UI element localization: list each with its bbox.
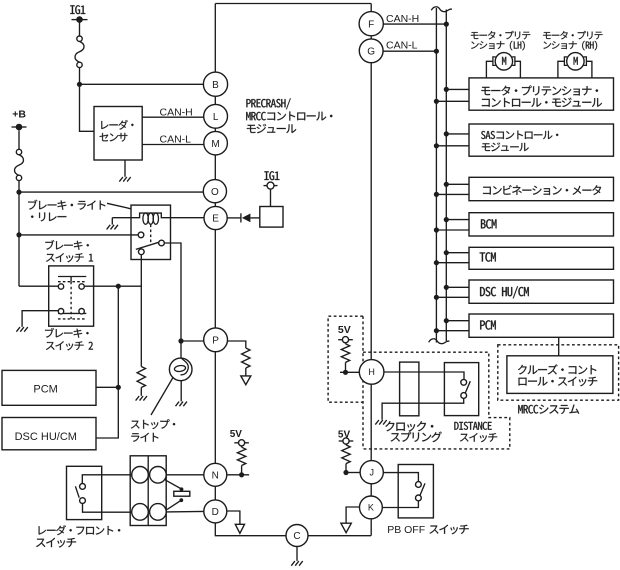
relay contact NO xyxy=(159,240,165,246)
radar sensor box xyxy=(94,107,142,161)
wire block to N xyxy=(166,474,204,476)
fuse F2 top circle xyxy=(16,149,21,154)
label clock spring line2 xyxy=(391,432,442,442)
wire meter CAN-L xyxy=(436,193,469,195)
clock spring box xyxy=(400,362,419,416)
wire resistor N to junction xyxy=(241,466,243,475)
wire E to diode xyxy=(227,217,241,219)
wire trunk D to C xyxy=(215,511,371,535)
block pin TL xyxy=(132,467,149,484)
connector pin N xyxy=(204,463,227,486)
motor RH circle xyxy=(567,53,584,70)
label PCM right xyxy=(480,320,496,329)
wire trunk L to M xyxy=(214,117,216,143)
motor LH brackets xyxy=(493,57,515,66)
svg-text:G: G xyxy=(367,46,375,57)
combination meter box xyxy=(469,177,614,200)
connector pin F xyxy=(359,12,383,36)
junction +B / relay xyxy=(16,232,21,237)
wire 5V to resistor N xyxy=(241,446,243,447)
label brake light relay line2 xyxy=(31,212,66,221)
label motor pretensioner LH line1 xyxy=(471,31,530,39)
wire front sw top xyxy=(82,475,132,484)
brake switch 1 box xyxy=(49,266,94,326)
label MRCC system xyxy=(518,405,579,414)
junction F CAN-H xyxy=(444,22,449,27)
ground relay coil xyxy=(107,225,118,230)
wire junction to P xyxy=(181,340,204,342)
wire block to D xyxy=(166,510,204,513)
+B terminal dot xyxy=(16,124,23,131)
connector pin L xyxy=(204,104,228,128)
wire TCM CAN-L xyxy=(436,262,469,264)
distance sw blade xyxy=(465,381,470,394)
distance sw contact top xyxy=(461,379,467,385)
connector pin B xyxy=(203,72,227,96)
wire 5V to resistor H xyxy=(345,343,347,344)
svg-text:CAN-H: CAN-H xyxy=(386,13,419,25)
label stop light line1 xyxy=(131,419,175,429)
wire BCM CAN-H xyxy=(446,219,469,221)
junction meter CAN-L xyxy=(434,192,439,197)
junction 5V / H xyxy=(343,370,348,375)
wire PB OFF return to K xyxy=(382,501,418,508)
connector pin G xyxy=(359,39,383,63)
connector pin H xyxy=(359,360,384,385)
brake sw1 contact right xyxy=(79,284,84,289)
wire node to B xyxy=(80,83,204,85)
brake light relay box xyxy=(131,205,171,259)
supply 5V for J symbol xyxy=(339,440,354,442)
connector pin P xyxy=(204,328,228,352)
wire trunk O to E xyxy=(214,191,216,218)
ground arrow K xyxy=(341,523,351,533)
PB OFF contact bottom xyxy=(416,495,422,501)
svg-text:+B: +B xyxy=(12,109,26,121)
ground clock spring xyxy=(375,420,386,425)
IG1 terminal bar xyxy=(72,19,88,21)
PB OFF switch box xyxy=(398,465,433,518)
junction DSC CAN-L xyxy=(434,295,439,300)
svg-text:D: D xyxy=(212,507,219,518)
label cruise line1 xyxy=(518,364,596,374)
wire IG1 to fuse xyxy=(79,20,81,36)
wire PCM rail xyxy=(96,286,118,438)
wire J stub xyxy=(346,472,360,474)
relay coil left lead xyxy=(112,213,204,218)
label cruise line2 xyxy=(519,377,598,387)
fuse F1 squiggle xyxy=(75,41,84,62)
junction TCM CAN-H xyxy=(444,250,449,255)
wire P resistor to arrow xyxy=(245,368,247,376)
supply 5V for H symbol xyxy=(338,339,353,341)
svg-text:CAN-L: CAN-L xyxy=(386,39,418,51)
junction MPCM CAN-H xyxy=(444,87,449,92)
radar front switch box xyxy=(67,466,102,519)
block pin TR xyxy=(150,467,167,484)
label MPCM line2 xyxy=(482,98,602,107)
diode D1 xyxy=(240,213,242,222)
relay switch blade xyxy=(136,242,159,249)
wire fuse to node xyxy=(79,68,81,85)
wire N stub xyxy=(227,474,249,476)
label radar front switch line1 xyxy=(39,525,121,535)
wire D to ground arrow xyxy=(227,511,240,524)
relay armature dashed link xyxy=(150,225,152,245)
wire H stub xyxy=(340,371,359,373)
connector block divider xyxy=(147,456,149,526)
junction PCM rail xyxy=(116,385,121,390)
wire resistor J to junction xyxy=(345,464,347,473)
svg-text:E: E xyxy=(212,214,219,225)
ground stop light xyxy=(176,402,187,407)
svg-text:M: M xyxy=(211,139,219,150)
PB OFF blade xyxy=(420,483,425,496)
label motor pretensioner RH line2 xyxy=(543,41,597,51)
ground C xyxy=(291,561,302,566)
connector pin K xyxy=(360,496,383,519)
connector block outer xyxy=(130,456,166,526)
CAN bus line L xyxy=(435,8,437,343)
junction DSC CAN-H xyxy=(444,285,449,290)
label stop light line2 xyxy=(131,433,158,442)
label SAS line2 xyxy=(482,142,529,151)
motor RH letter M xyxy=(574,57,578,65)
label PRECRASH line1 xyxy=(246,98,290,109)
brake switch inner top bar xyxy=(58,276,86,278)
connector pin O xyxy=(203,180,226,203)
wire IG1 terminal to box xyxy=(270,189,272,207)
svg-text:PB OFF: PB OFF xyxy=(387,524,425,536)
fuse F2 bottom circle xyxy=(16,175,21,180)
cruise control switch box xyxy=(507,356,613,394)
wire G to H xyxy=(370,51,372,372)
label PB OFF switch kana xyxy=(430,525,469,535)
label IG1 top xyxy=(70,5,85,14)
label distance sw line2 xyxy=(460,433,497,442)
fuse F1 top circle xyxy=(77,36,82,41)
label motor pretensioner LH line2 xyxy=(471,41,525,51)
wire +B to O xyxy=(19,191,204,193)
motor pretensioner RH leads xyxy=(558,61,592,78)
PCM box right xyxy=(469,314,614,337)
brake sw1 contact left xyxy=(58,284,63,289)
wire front sw bottom xyxy=(83,504,132,513)
motor LH circle xyxy=(495,53,512,70)
distance sw contact bottom xyxy=(461,393,467,399)
wire block diag bottom xyxy=(167,500,181,509)
pointer line relay label xyxy=(107,203,131,209)
brake switch center dashed stem xyxy=(70,282,72,319)
wire K to ground arrow xyxy=(346,507,359,523)
junction meter CAN-H xyxy=(444,182,449,187)
dashed box divider xyxy=(362,316,364,449)
svg-text:J: J xyxy=(369,467,374,477)
label clock spring line1 xyxy=(385,421,433,431)
MRCC system dashed box xyxy=(498,345,619,400)
wire diode to box xyxy=(250,217,259,219)
wire trunk P to N xyxy=(214,340,216,475)
resistor relay branch xyxy=(137,367,145,388)
wire trunk M to O xyxy=(214,143,216,191)
wire top rail xyxy=(215,3,371,5)
svg-text:5V: 5V xyxy=(230,429,243,440)
resistor 5V N xyxy=(237,447,245,465)
junction stop light / P xyxy=(178,338,183,343)
brake switch inner dashed bar upper xyxy=(58,281,86,283)
svg-text:5V: 5V xyxy=(338,324,351,336)
brake sw2 contact left xyxy=(58,309,63,314)
front sw contact top xyxy=(80,484,86,490)
wire MPCM CAN-L xyxy=(436,100,469,102)
label radar sensor line2 xyxy=(100,133,128,142)
svg-text:O: O xyxy=(211,187,219,198)
connector pin D xyxy=(204,500,227,523)
junction 5V / J xyxy=(343,470,348,475)
PCM box left xyxy=(2,370,96,405)
dashed box distance switch xyxy=(363,352,510,449)
junction IG1 node xyxy=(77,82,82,87)
wire distance sw return xyxy=(382,398,464,419)
junction brake sw1 / PCM rail xyxy=(116,284,121,289)
label motor pretensioner RH line1 xyxy=(543,31,602,39)
brake switch inner dashed bar lower xyxy=(58,318,86,320)
dashed box 5V-H xyxy=(328,316,363,402)
relay contact COM xyxy=(138,249,144,255)
wire trunk E to P xyxy=(214,218,216,340)
CAN bus break bottom xyxy=(429,339,450,344)
wire trunk B to L xyxy=(214,84,216,117)
resistor 5V J xyxy=(342,445,350,464)
wire node down to radar sensor xyxy=(80,84,95,131)
wire DSC CAN-H xyxy=(446,286,469,288)
wire C ground stem xyxy=(296,547,298,561)
ground radar sensor xyxy=(119,177,130,182)
wire fuse to +B rail xyxy=(18,181,20,287)
connector pin M xyxy=(204,131,228,155)
motor RH brackets xyxy=(564,57,586,66)
wire SAS CAN-H xyxy=(446,133,469,135)
wire DSC CAN-L xyxy=(436,296,469,298)
wire block diag top xyxy=(165,480,182,489)
front sw contact bottom xyxy=(80,498,86,504)
wire PCM to cruise switch xyxy=(558,337,560,356)
wire meter CAN-H xyxy=(446,183,469,185)
front sw blade xyxy=(75,486,79,497)
junction chip resistor top xyxy=(180,487,184,491)
wire F to G xyxy=(370,24,372,51)
svg-text:K: K xyxy=(368,503,374,513)
junction PCM CAN-H xyxy=(444,318,449,323)
ground arrow P branch xyxy=(241,376,251,385)
wire P to resistor xyxy=(228,341,246,348)
label combination meter xyxy=(483,185,601,195)
wire +B rail to brake switch 1 xyxy=(19,285,58,287)
svg-text:DSC HU/CM: DSC HU/CM xyxy=(15,431,77,443)
label BCM xyxy=(481,219,497,228)
resistor 5V H xyxy=(341,344,349,363)
wire 5V to resistor J xyxy=(345,443,347,446)
svg-text:F: F xyxy=(368,19,374,30)
chip resistor xyxy=(174,491,190,496)
fuse F2 squiggle xyxy=(15,155,24,176)
wire PCM CAN-L xyxy=(436,330,469,332)
motor pretensioner control module box xyxy=(469,78,614,110)
label distance sw line1 xyxy=(454,422,491,430)
label brake switch1 line2 xyxy=(46,253,93,262)
junction SAS CAN-H xyxy=(444,131,449,136)
connector pin J xyxy=(360,461,383,484)
relay pilot contact xyxy=(138,232,144,238)
CAN bus break top xyxy=(431,7,452,12)
wire SAS CAN-L xyxy=(436,145,469,147)
junction PCM CAN-L xyxy=(434,328,439,333)
wire +B to relay contact xyxy=(19,234,138,236)
PB OFF contact top xyxy=(416,482,422,488)
relay coil loops xyxy=(143,213,148,224)
+B terminal bar xyxy=(12,126,27,128)
block pin BR xyxy=(150,504,167,521)
DSC HU/CM box left xyxy=(2,418,96,450)
svg-text:N: N xyxy=(212,470,219,481)
label MPCM line1 xyxy=(481,86,598,96)
IG1 diode terminal circle xyxy=(267,182,274,189)
ground relay resistor xyxy=(136,396,147,401)
TCM box xyxy=(469,247,614,269)
junction G CAN-L xyxy=(434,49,439,54)
wire brake sw2 to ground xyxy=(22,311,58,327)
distance switch box xyxy=(444,363,478,416)
label PRECRASH line3 xyxy=(247,124,296,133)
junction TCM CAN-L xyxy=(434,260,439,265)
svg-text:PCM: PCM xyxy=(33,383,57,395)
junction BCM CAN-L xyxy=(434,227,439,232)
fuse F1 bottom circle xyxy=(77,62,82,67)
junction 5V / N xyxy=(239,472,244,477)
label radar front switch line2 xyxy=(36,538,76,548)
connector pin C xyxy=(286,525,308,547)
wire relay NO to stop light xyxy=(164,243,181,341)
svg-text:CAN-L: CAN-L xyxy=(160,134,192,146)
resistor ground stem xyxy=(140,388,142,396)
svg-text:B: B xyxy=(212,80,219,91)
ground arrow D branch xyxy=(235,524,244,533)
wire relay COM down xyxy=(140,255,142,367)
svg-text:C: C xyxy=(293,531,300,542)
supply 5V for N symbol xyxy=(234,442,249,444)
junction +B / O xyxy=(16,190,21,195)
wire H to J xyxy=(370,372,372,472)
label brake switch2 line1 xyxy=(45,328,89,338)
wire CAN-H radar to L xyxy=(142,116,203,118)
connector pin E xyxy=(204,206,227,229)
svg-text:P: P xyxy=(212,335,219,346)
relay coil ground stem xyxy=(111,218,113,225)
svg-text:L: L xyxy=(213,112,219,123)
label TCM xyxy=(480,252,496,261)
brake sw2 contact right xyxy=(79,309,84,314)
wire K down to C line xyxy=(370,507,372,535)
motor LH letter M xyxy=(502,57,506,65)
label DSC right xyxy=(480,286,529,298)
label SAS line1 xyxy=(481,131,558,140)
wire resistor H to junction xyxy=(345,362,347,372)
wire F drop xyxy=(370,4,372,24)
IG1 diode terminal bar xyxy=(264,185,278,187)
BCM box xyxy=(469,213,614,236)
wire J to PB OFF switch xyxy=(383,473,418,482)
ground brake switch 2 xyxy=(16,327,27,332)
label brake switch1 line1 xyxy=(45,240,89,250)
CAN bus line H xyxy=(445,10,447,342)
svg-text:H: H xyxy=(368,367,375,377)
label radar sensor line1 xyxy=(101,120,133,130)
resistor P branch xyxy=(242,348,250,368)
wire J to K xyxy=(370,472,372,507)
wire H to distance switch xyxy=(384,372,464,379)
wire brake sw1 to relay rail xyxy=(84,285,141,287)
label brake switch2 line2 xyxy=(46,341,93,350)
wire PCM to rail xyxy=(96,386,118,388)
wire junction to stop light xyxy=(180,341,182,358)
SAS control module box xyxy=(469,124,614,156)
wire PCM CAN-H xyxy=(446,320,469,322)
svg-text:CAN-H: CAN-H xyxy=(160,107,193,119)
label brake light relay line1 xyxy=(28,200,105,210)
junction BCM CAN-H xyxy=(444,217,449,222)
wire TCM CAN-H xyxy=(446,252,469,254)
wire MPCM CAN-H xyxy=(446,88,469,90)
wire CAN-L radar to M xyxy=(142,144,204,146)
label IG1 diode xyxy=(264,171,279,180)
stop light lamp xyxy=(169,358,192,381)
DSC HU/CM box right xyxy=(469,280,614,303)
wire trunk N to D xyxy=(214,475,216,512)
wire BCM CAN-L xyxy=(436,229,469,231)
wire radar sensor ground stem xyxy=(124,160,126,177)
IG1 terminal dot xyxy=(76,16,83,23)
wire trunk B-branch xyxy=(214,4,216,85)
wire +B to fuse xyxy=(18,130,20,149)
junction SAS CAN-L xyxy=(434,143,439,148)
junction MPCM CAN-L xyxy=(434,99,439,104)
IG1 feed box xyxy=(260,207,283,228)
wire G to CAN bus xyxy=(383,50,436,52)
brake switch lower bar xyxy=(58,312,86,314)
pointer line stop light label xyxy=(151,377,173,415)
wire lamp to ground xyxy=(180,381,182,402)
brake switch center stem xyxy=(70,277,72,282)
block pin BL xyxy=(132,504,149,521)
junction chip resistor bottom xyxy=(179,498,183,502)
motor pretensioner LH leads xyxy=(486,61,520,78)
label PRECRASH line2 xyxy=(246,112,332,121)
wire F to CAN bus xyxy=(383,23,446,25)
